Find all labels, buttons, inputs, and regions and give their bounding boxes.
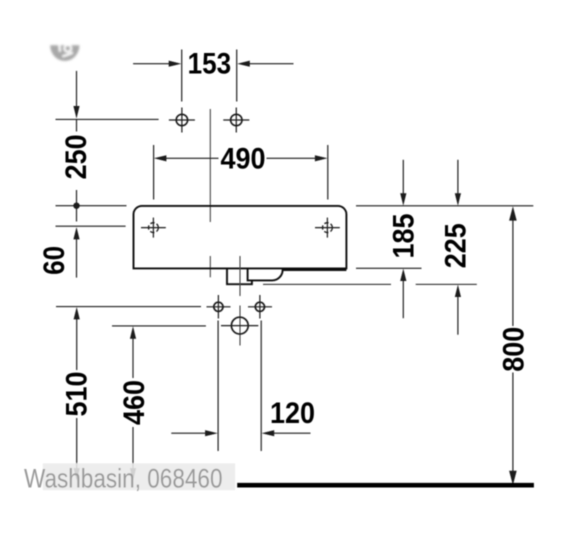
basin tap hole left (front) xyxy=(141,218,166,238)
svg-text:800: 800 xyxy=(497,327,530,372)
reference line drain level xyxy=(112,325,206,327)
centerline between top tap holes xyxy=(209,109,211,277)
dim 153 extension line left xyxy=(181,50,183,102)
reference line at faucet level xyxy=(56,118,159,120)
drain hole circle xyxy=(221,317,258,334)
dim 153 extension line right xyxy=(236,50,238,102)
dim 250/60 shared line with dot and up arrow xyxy=(73,190,79,278)
dim 250 top arrow (down) xyxy=(73,71,79,119)
reference line at basin rim (dot level) xyxy=(56,205,127,207)
svg-text:460: 460 xyxy=(118,380,151,425)
dim 185 down arrow xyxy=(400,160,406,206)
dim 153 dimension line left segment with arrow xyxy=(133,61,181,67)
dim 185 up arrow xyxy=(400,269,406,319)
dim 225 down arrow xyxy=(455,160,461,206)
dim 510 up arrow and stem xyxy=(74,307,80,481)
reference line siphon bottom level left part xyxy=(263,283,391,285)
dim 490 extension line left xyxy=(153,145,155,200)
svg-text:225: 225 xyxy=(440,223,473,268)
washbasin body outline xyxy=(134,206,347,269)
caption band xyxy=(43,463,235,490)
tap hole top-right (plan) xyxy=(223,108,249,133)
svg-text:490: 490 xyxy=(221,143,266,176)
dim 490 dimension line left segment with arrow xyxy=(154,155,219,161)
reference line basin rim right xyxy=(356,205,533,207)
dim 225 up arrow xyxy=(455,285,461,335)
siphon trap cover outline xyxy=(248,268,347,280)
svg-text:153: 153 xyxy=(188,47,232,80)
svg-text:510: 510 xyxy=(60,372,93,417)
dim 120 dimension line right segment with arrow xyxy=(262,430,311,436)
basin tap hole right (front) xyxy=(315,218,340,238)
fixing hole right xyxy=(248,295,272,319)
dim 250 line upper stub xyxy=(76,119,78,131)
svg-text:Washbasin, 068460: Washbasin, 068460 xyxy=(24,464,223,494)
svg-text:120: 120 xyxy=(270,397,315,430)
dim 490 extension line right xyxy=(327,145,329,200)
dim 153 dimension line right segment with arrow xyxy=(237,61,293,67)
svg-text:60: 60 xyxy=(38,246,71,275)
dim 120 extension line right xyxy=(260,321,262,452)
reference line siphon bottom level right part xyxy=(416,283,477,285)
svg-text:250: 250 xyxy=(60,134,93,179)
svg-text:185: 185 xyxy=(388,214,421,259)
drain centerline xyxy=(239,256,241,346)
dim 490 dimension line right segment with arrow xyxy=(267,155,328,161)
dim 120 extension line left xyxy=(217,321,219,452)
dim 800 up arrow and line xyxy=(509,206,517,485)
logo watermark xyxy=(50,45,79,61)
drain outlet tab below basin xyxy=(227,268,252,284)
reference line fixing hole level xyxy=(56,306,201,308)
reference line at basin tap hole level xyxy=(56,225,126,227)
floor line xyxy=(237,483,534,488)
dim 120 dimension line left segment with arrow xyxy=(171,430,217,436)
reference line basin bottom right xyxy=(356,267,422,269)
tap hole top-left (plan) xyxy=(169,108,195,133)
fixing hole left xyxy=(207,295,231,319)
dim 460 up arrow and stem xyxy=(130,326,136,480)
